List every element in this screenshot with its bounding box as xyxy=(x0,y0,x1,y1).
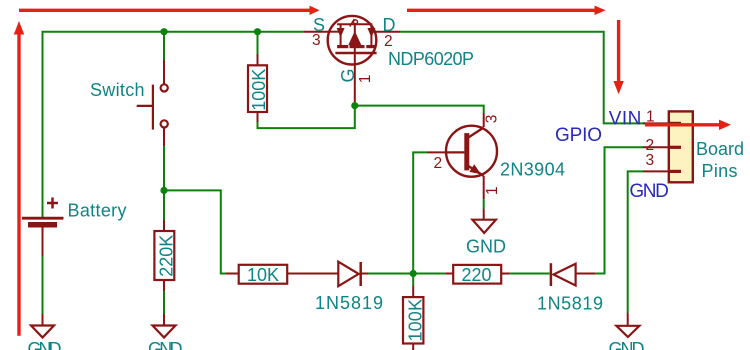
svg-text:2: 2 xyxy=(434,155,443,172)
svg-text:GND: GND xyxy=(466,237,506,257)
svg-text:GPIO: GPIO xyxy=(555,125,602,146)
svg-text:2N3904: 2N3904 xyxy=(500,160,565,180)
svg-text:1N5819: 1N5819 xyxy=(315,293,383,313)
svg-text:100K: 100K xyxy=(406,299,426,342)
svg-text:220: 220 xyxy=(462,265,492,285)
svg-text:2: 2 xyxy=(384,33,393,50)
svg-text:GND: GND xyxy=(629,181,669,202)
svg-text:1: 1 xyxy=(357,75,374,84)
svg-text:Switch: Switch xyxy=(90,80,145,100)
svg-text:3: 3 xyxy=(646,152,655,169)
svg-text:D: D xyxy=(383,15,396,35)
svg-text:VIN: VIN xyxy=(609,109,642,130)
svg-text:Battery: Battery xyxy=(68,201,127,221)
svg-text:Pins: Pins xyxy=(702,161,738,181)
svg-text:1N5819: 1N5819 xyxy=(537,294,603,314)
svg-text:NDP6020P: NDP6020P xyxy=(388,49,474,69)
svg-text:1: 1 xyxy=(646,109,655,126)
svg-text:3: 3 xyxy=(484,115,501,124)
svg-text:GND: GND xyxy=(28,339,62,350)
svg-text:GND: GND xyxy=(148,339,183,350)
svg-text:3: 3 xyxy=(312,32,321,49)
svg-text:Board: Board xyxy=(696,139,744,159)
svg-text:G: G xyxy=(338,68,358,82)
svg-text:220K: 220K xyxy=(157,235,177,277)
svg-text:100K: 100K xyxy=(249,69,269,111)
svg-text:10K: 10K xyxy=(247,265,279,285)
svg-text:GND: GND xyxy=(609,339,645,350)
svg-text:1: 1 xyxy=(484,186,501,195)
